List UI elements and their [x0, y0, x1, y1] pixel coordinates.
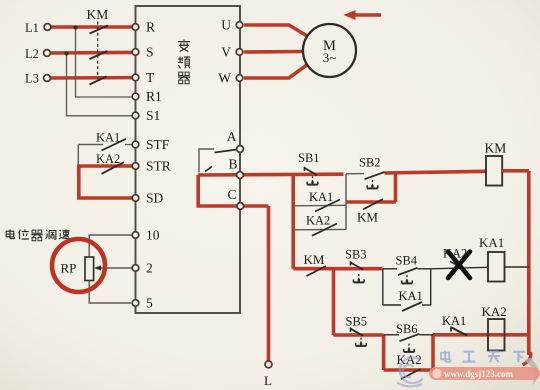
annotation circle around RP	[52, 239, 105, 292]
svg-text:RP: RP	[61, 261, 77, 276]
contact A arm	[215, 150, 238, 153]
contact KA1 parallel arm	[315, 200, 340, 212]
label 变频器 (inverter)	[178, 40, 190, 84]
wire KA1 branch stub	[422, 304, 431, 306]
contact KA1 arm	[102, 139, 127, 151]
terminal W	[236, 75, 243, 82]
svg-text:SB3: SB3	[345, 248, 367, 262]
button SB5 (NC)	[350, 327, 352, 331]
svg-text:SB5: SB5	[346, 315, 368, 329]
wire SB6 stub	[420, 334, 434, 336]
SB3 pusher	[358, 274, 360, 280]
contact KA2 holding arm	[401, 369, 421, 379]
svg-text:V: V	[221, 45, 231, 60]
wire STR red	[79, 164, 133, 168]
wire W-motor	[244, 65, 308, 79]
svg-text:SB4: SB4	[396, 254, 418, 268]
wire B rung left	[198, 172, 344, 176]
KM linkage dashed	[97, 22, 99, 80]
svg-text:R1: R1	[146, 89, 162, 104]
svg-text:KM: KM	[485, 141, 507, 156]
SB2 pusher	[372, 180, 374, 186]
wire U-motor	[244, 25, 308, 37]
svg-text:2: 2	[146, 261, 153, 276]
terminal L3	[44, 75, 51, 82]
svg-text:KM: KM	[304, 252, 325, 267]
terminal R	[132, 24, 139, 31]
watermark swirl	[397, 358, 423, 387]
wire SB6 block left red	[382, 335, 386, 370]
svg-text:STR: STR	[146, 159, 171, 174]
wire KA1 drop	[77, 145, 79, 167]
svg-text:STF: STF	[146, 137, 170, 152]
svg-text:C: C	[227, 187, 236, 202]
terminal B	[237, 172, 244, 179]
button SB1 (NC)	[304, 167, 306, 171]
svg-text:R: R	[146, 20, 155, 35]
wire KA1 coil to rail	[505, 266, 529, 268]
wire rung3 feeder drop	[332, 269, 336, 335]
watermark url band	[429, 367, 540, 380]
wire KM branch drop	[394, 174, 398, 203]
contact KA1 rung2 arm	[402, 302, 422, 311]
terminal A	[237, 146, 244, 153]
terminal L2	[44, 50, 51, 57]
svg-text:SB2: SB2	[359, 156, 381, 170]
svg-text:L: L	[264, 373, 272, 388]
button SB6 (NO) arm	[400, 334, 420, 341]
button SB2 (NO) arm	[365, 172, 385, 179]
wire SB4 lead	[383, 268, 397, 270]
wire rung3 right	[433, 333, 529, 337]
wire 10 to RP	[89, 235, 132, 257]
wire KA2 holding branch	[384, 368, 433, 372]
label 电位器调速 (potentiometer speed ctl)	[6, 229, 69, 240]
svg-text:KM: KM	[87, 7, 109, 22]
contact KM holding arm	[363, 199, 383, 210]
wire B-C left leg	[198, 175, 268, 206]
wire parallel tap vertical	[345, 174, 347, 230]
terminal C	[237, 203, 244, 210]
inverter box 变频器	[136, 6, 241, 313]
svg-text:W: W	[218, 71, 231, 86]
svg-text:KA2: KA2	[482, 304, 507, 319]
wire L3-T	[51, 76, 133, 80]
wire L2-S	[51, 51, 133, 55]
svg-text:S1: S1	[146, 108, 160, 123]
contactor KM pole3	[90, 77, 107, 85]
wire SB4 block right	[430, 269, 432, 305]
terminal 10	[132, 232, 139, 239]
terminal 5	[132, 300, 139, 307]
wire RP to 5	[89, 281, 131, 304]
svg-text:SD: SD	[146, 191, 164, 206]
wire A contact leads	[199, 149, 214, 173]
terminal U	[236, 22, 243, 29]
wire KA1 branch lead	[383, 304, 401, 306]
SB5 pusher	[360, 338, 362, 344]
svg-text:U: U	[221, 18, 231, 33]
wire SB4 block left	[382, 269, 384, 305]
svg-text:L2: L2	[25, 47, 39, 61]
junction dot L1	[74, 26, 78, 30]
svg-text:KA2: KA2	[306, 214, 330, 228]
wire L1-R	[51, 25, 133, 29]
svg-text:10: 10	[146, 228, 160, 243]
svg-text:5: 5	[146, 296, 153, 311]
svg-text:SB6: SB6	[396, 322, 418, 336]
terminal SD	[132, 195, 139, 202]
motor M circle	[303, 24, 356, 77]
svg-text:S: S	[146, 45, 154, 60]
terminal R1	[132, 93, 139, 100]
wire after SB2 to KM coil	[385, 171, 487, 173]
junction dot L2	[65, 52, 69, 56]
coil KA1	[488, 252, 505, 282]
contact B arrow tick	[205, 167, 212, 172]
X cross-out mark	[448, 252, 470, 279]
terminal 2	[132, 265, 139, 272]
wire KM coil to rail	[502, 169, 529, 173]
contactor KM pole1	[90, 26, 109, 34]
wire L1 tap to R1	[76, 27, 133, 97]
button SB2 lead	[346, 173, 364, 175]
watermark crescent	[524, 358, 539, 386]
wire KA1 branch	[293, 204, 346, 207]
svg-text:KA1: KA1	[309, 190, 333, 204]
terminal S1	[132, 112, 139, 119]
terminal L	[265, 361, 272, 368]
svg-text:KA1: KA1	[479, 235, 504, 250]
SB4 pusher	[406, 275, 408, 281]
rail end hook	[523, 352, 531, 365]
wire left rail	[291, 174, 295, 269]
contactor KM pole2	[90, 51, 108, 59]
terminal T	[132, 74, 139, 81]
wire SB4 stub	[418, 268, 431, 270]
SB1 pusher	[312, 176, 314, 182]
wire to KA2 NC	[431, 267, 488, 269]
wire rung2 red	[293, 267, 382, 271]
wire right rail	[527, 171, 531, 355]
coil KM	[486, 156, 502, 186]
contact KM rung2 arm	[307, 266, 327, 276]
coil KA2	[488, 319, 505, 351]
terminal STF	[132, 141, 139, 148]
SB6 pusher	[408, 344, 410, 350]
svg-text:KM: KM	[357, 210, 378, 225]
arrow to motor	[352, 13, 381, 16]
watermark 电工天下	[441, 350, 525, 362]
RP wiper arrow	[99, 267, 133, 269]
svg-text:KA1: KA1	[442, 314, 466, 328]
wire KA2 branch	[293, 228, 346, 230]
svg-text:KA2: KA2	[96, 152, 120, 166]
wire STF stub	[125, 144, 133, 146]
terminal L1	[44, 24, 51, 31]
wire C down to L	[267, 206, 271, 362]
svg-text:B: B	[228, 157, 237, 172]
svg-text:www.dgsj123.com: www.dgsj123.com	[444, 369, 514, 379]
wire L2 tap to S1	[67, 53, 133, 116]
wire V-motor	[244, 50, 304, 54]
wire STF lead	[78, 144, 103, 146]
terminal V	[236, 49, 243, 56]
button SB4 (NO) arm	[398, 268, 418, 275]
contact KA2 NC arm	[450, 262, 464, 269]
svg-text:A: A	[227, 129, 237, 144]
terminal STR	[132, 163, 139, 170]
button SB3 (NC)	[350, 261, 352, 265]
contact KA2 arm	[102, 162, 125, 174]
svg-text:T: T	[146, 70, 155, 85]
svg-text:SB1: SB1	[298, 151, 320, 165]
potentiometer RP body	[85, 257, 94, 281]
svg-text:L1: L1	[25, 21, 39, 35]
wire SB6 lead	[384, 334, 399, 336]
svg-text:KA1: KA1	[399, 289, 423, 303]
wire STR to SD red	[79, 165, 133, 199]
contact KA1 NC arm	[450, 327, 452, 332]
wire KM holding branch	[346, 200, 396, 204]
terminal S	[132, 49, 139, 56]
svg-text:3~: 3~	[323, 50, 337, 65]
svg-text:L3: L3	[25, 72, 39, 86]
contact KA2 parallel arm	[312, 224, 337, 236]
wire SB6 block right red	[431, 335, 435, 370]
wire rung3 left	[334, 333, 384, 337]
